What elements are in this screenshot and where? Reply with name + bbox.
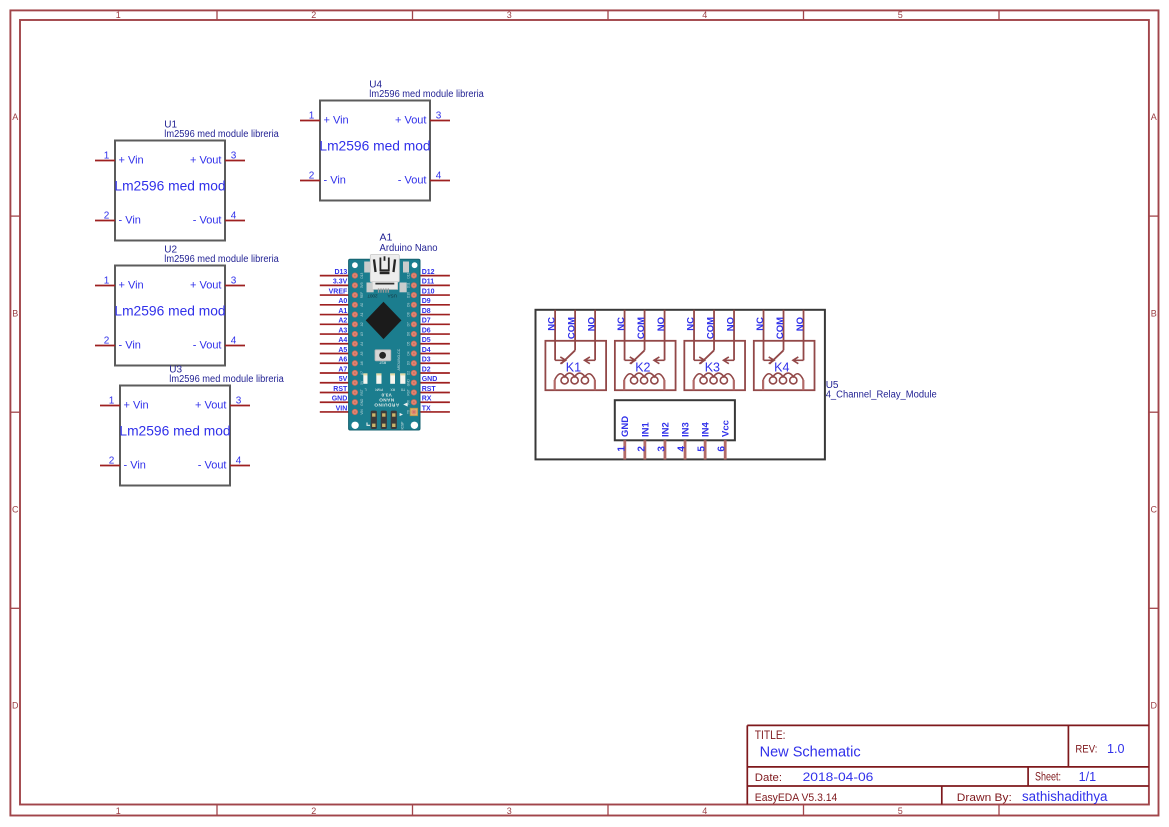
svg-text:5: 5 (697, 446, 708, 452)
svg-text:GND: GND (360, 398, 364, 406)
svg-text:3: 3 (436, 111, 442, 122)
svg-text:A0: A0 (360, 303, 364, 307)
svg-text:3.3V: 3.3V (333, 279, 348, 286)
svg-text:L: L (365, 388, 367, 392)
svg-text:COM: COM (636, 317, 647, 339)
svg-text:D12: D12 (422, 269, 435, 276)
svg-text:COM: COM (566, 317, 577, 339)
svg-text:D9: D9 (422, 298, 431, 305)
svg-text:5V: 5V (339, 376, 348, 383)
svg-text:PWR: PWR (375, 388, 383, 392)
svg-text:A: A (12, 112, 18, 122)
svg-text:TITLE:: TITLE: (755, 728, 786, 742)
svg-text:Drawn By:: Drawn By: (957, 792, 1012, 804)
svg-text:D13: D13 (360, 272, 364, 278)
svg-text:1: 1 (616, 446, 627, 452)
svg-text:D5: D5 (422, 337, 431, 344)
svg-text:2: 2 (104, 336, 110, 347)
svg-text:D6: D6 (422, 327, 431, 334)
svg-text:K1: K1 (566, 360, 581, 374)
svg-text:IN1: IN1 (640, 422, 651, 438)
svg-text:D: D (1150, 701, 1157, 711)
svg-text:B: B (1151, 308, 1157, 318)
svg-text:+ Vin: + Vin (124, 400, 149, 412)
svg-text:NC: NC (685, 317, 696, 331)
svg-text:- Vin: - Vin (119, 340, 141, 352)
svg-text:EasyEDA V5.3.14: EasyEDA V5.3.14 (755, 792, 838, 804)
svg-text:Vcc: Vcc (721, 420, 732, 437)
svg-text:D4: D4 (422, 347, 431, 354)
svg-text:A5: A5 (360, 351, 364, 355)
svg-text:A6: A6 (360, 361, 364, 365)
svg-text:Lm2596 med mod: Lm2596 med mod (319, 139, 430, 154)
svg-text:+ Vout: + Vout (195, 400, 227, 412)
svg-text:A6: A6 (338, 357, 347, 364)
svg-text:D10: D10 (422, 288, 435, 295)
svg-text:RST: RST (406, 389, 410, 395)
svg-text:TX: TX (400, 388, 405, 392)
svg-text:IN4: IN4 (701, 422, 712, 438)
svg-text:- Vin: - Vin (119, 215, 141, 227)
svg-text:D7: D7 (406, 322, 410, 326)
svg-text:- Vin: - Vin (124, 460, 146, 472)
svg-text:3: 3 (231, 276, 237, 287)
svg-text:A0: A0 (338, 298, 347, 305)
svg-text:GND: GND (406, 379, 410, 387)
svg-text:RST: RST (422, 386, 437, 393)
svg-text:3: 3 (231, 151, 237, 162)
svg-text:D: D (12, 701, 19, 711)
svg-text:TX: TX (422, 405, 431, 412)
svg-text:lm2596 med module libreria: lm2596 med module libreria (164, 254, 279, 265)
svg-text:A5: A5 (338, 347, 347, 354)
svg-text:Lm2596 med mod: Lm2596 med mod (114, 304, 225, 319)
svg-text:C: C (1150, 504, 1157, 514)
svg-text:A4: A4 (360, 342, 364, 346)
svg-text:K2: K2 (635, 360, 650, 374)
svg-text:ICSP: ICSP (401, 421, 405, 430)
svg-text:RX: RX (422, 396, 432, 403)
svg-text:Lm2596 med mod: Lm2596 med mod (119, 424, 230, 439)
svg-text:+ Vin: + Vin (119, 155, 144, 167)
svg-text:2: 2 (309, 171, 315, 182)
svg-text:D7: D7 (422, 318, 431, 325)
svg-text:D11: D11 (422, 279, 435, 286)
svg-text:K3: K3 (705, 360, 720, 374)
svg-text:1: 1 (309, 111, 315, 122)
svg-text:A2: A2 (338, 318, 347, 325)
svg-text:lm2596 med module libreria: lm2596 med module libreria (369, 89, 484, 100)
svg-text:V3.0: V3.0 (381, 392, 392, 397)
svg-text:D4: D4 (406, 351, 410, 355)
svg-text:6: 6 (717, 446, 728, 452)
svg-text:Arduino Nano: Arduino Nano (380, 242, 438, 254)
svg-text:1: 1 (116, 10, 121, 20)
svg-text:A2: A2 (360, 322, 364, 326)
svg-text:COM: COM (705, 317, 716, 339)
svg-text:D8: D8 (406, 312, 410, 316)
svg-text:IN3: IN3 (680, 422, 691, 437)
svg-text:A4: A4 (338, 337, 347, 344)
svg-text:+ Vout: + Vout (395, 115, 427, 127)
svg-text:A3: A3 (360, 332, 364, 336)
svg-text:4: 4 (702, 806, 707, 816)
svg-text:GND: GND (620, 416, 631, 437)
svg-text:3V3: 3V3 (360, 282, 364, 288)
svg-text:NO: NO (795, 317, 806, 331)
svg-text:D13: D13 (334, 269, 347, 276)
svg-text:4_Channel_Relay_Module: 4_Channel_Relay_Module (826, 390, 937, 401)
svg-text:lm2596 med module libreria: lm2596 med module libreria (164, 129, 279, 140)
svg-text:+ Vout: + Vout (190, 155, 222, 167)
svg-text:ARDUINO-CC: ARDUINO-CC (397, 348, 401, 370)
svg-text:2018-04-06: 2018-04-06 (803, 770, 874, 784)
svg-text:D11: D11 (406, 282, 410, 288)
svg-text:NC: NC (546, 317, 557, 331)
svg-text:RST: RST (360, 389, 364, 395)
svg-text:GND: GND (332, 396, 348, 403)
svg-text:D3: D3 (406, 361, 410, 365)
svg-text:D9: D9 (406, 303, 410, 307)
svg-text:2: 2 (636, 446, 647, 452)
svg-text:- Vout: - Vout (398, 175, 427, 187)
svg-text:NC: NC (616, 317, 627, 331)
svg-text:2: 2 (104, 211, 110, 222)
svg-text:- Vout: - Vout (193, 340, 222, 352)
svg-text:C: C (12, 504, 19, 514)
svg-text:2007: 2007 (367, 293, 378, 298)
svg-text:2: 2 (311, 806, 316, 816)
svg-text:A: A (1151, 112, 1157, 122)
svg-text:VREF: VREF (329, 288, 348, 295)
svg-text:3: 3 (236, 396, 242, 407)
svg-text:4: 4 (231, 336, 237, 347)
svg-text:Lm2596 med mod: Lm2596 med mod (114, 179, 225, 194)
svg-text:lm2596 med module libreria: lm2596 med module libreria (169, 374, 284, 385)
svg-text:2: 2 (311, 10, 316, 20)
svg-text:D10: D10 (406, 292, 410, 298)
svg-text:D3: D3 (422, 357, 431, 364)
svg-text:RST: RST (333, 386, 348, 393)
svg-text:COM: COM (775, 317, 786, 339)
svg-text:B: B (12, 308, 18, 318)
svg-text:A1: A1 (338, 308, 347, 315)
svg-text:Sheet:: Sheet: (1035, 772, 1061, 784)
svg-text:1: 1 (104, 151, 110, 162)
svg-text:sathishadithya: sathishadithya (1022, 789, 1108, 804)
svg-text:REF: REF (360, 292, 364, 298)
svg-text:1/1: 1/1 (1079, 769, 1097, 784)
svg-text:+ Vin: + Vin (119, 280, 144, 292)
svg-text:RST: RST (378, 361, 386, 365)
svg-text:1: 1 (116, 806, 121, 816)
svg-text:4: 4 (436, 171, 442, 182)
svg-text:USA: USA (387, 293, 397, 298)
svg-text:5: 5 (898, 10, 903, 20)
svg-text:3: 3 (507, 806, 512, 816)
svg-text:D6: D6 (406, 332, 410, 336)
svg-text:VIN: VIN (360, 409, 364, 415)
svg-text:3: 3 (656, 446, 667, 452)
svg-text:+ Vout: + Vout (190, 280, 222, 292)
svg-text:4: 4 (702, 10, 707, 20)
svg-text:D5: D5 (406, 342, 410, 346)
svg-text:GND: GND (422, 376, 438, 383)
svg-text:IN2: IN2 (660, 422, 671, 437)
svg-text:A1: A1 (360, 312, 364, 316)
svg-text:D2: D2 (406, 371, 410, 375)
svg-text:2: 2 (109, 456, 115, 467)
svg-text:VIN: VIN (336, 405, 348, 412)
svg-text:D2: D2 (422, 366, 431, 373)
svg-text:+ Vin: + Vin (324, 115, 349, 127)
svg-text:Date:: Date: (755, 772, 782, 784)
svg-text:1.0: 1.0 (1107, 742, 1125, 756)
svg-text:4: 4 (231, 211, 237, 222)
svg-text:A3: A3 (338, 327, 347, 334)
svg-text:1: 1 (104, 276, 110, 287)
svg-text:- Vout: - Vout (193, 215, 222, 227)
svg-text:D8: D8 (422, 308, 431, 315)
svg-text:4: 4 (236, 456, 242, 467)
svg-text:NO: NO (586, 317, 597, 331)
svg-text:K4: K4 (774, 360, 789, 374)
svg-text:A7: A7 (360, 371, 364, 375)
svg-text:NC: NC (755, 317, 766, 331)
svg-text:4: 4 (677, 446, 688, 452)
svg-text:New Schematic: New Schematic (760, 744, 861, 761)
svg-text:REV:: REV: (1075, 743, 1097, 755)
svg-text:3: 3 (507, 10, 512, 20)
svg-text:D12: D12 (406, 272, 410, 278)
svg-text:A7: A7 (338, 366, 347, 373)
svg-text:RX: RX (390, 388, 395, 392)
svg-text:- Vout: - Vout (198, 460, 227, 472)
svg-text:NO: NO (725, 317, 736, 331)
svg-text:5: 5 (898, 806, 903, 816)
svg-text:NO: NO (656, 317, 667, 331)
svg-text:1: 1 (109, 396, 115, 407)
svg-text:- Vin: - Vin (324, 175, 346, 187)
